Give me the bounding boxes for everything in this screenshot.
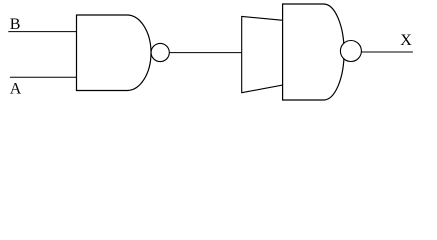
svg-text:B: B xyxy=(10,16,21,33)
svg-text:A: A xyxy=(10,80,22,97)
svg-text:X: X xyxy=(400,32,412,49)
